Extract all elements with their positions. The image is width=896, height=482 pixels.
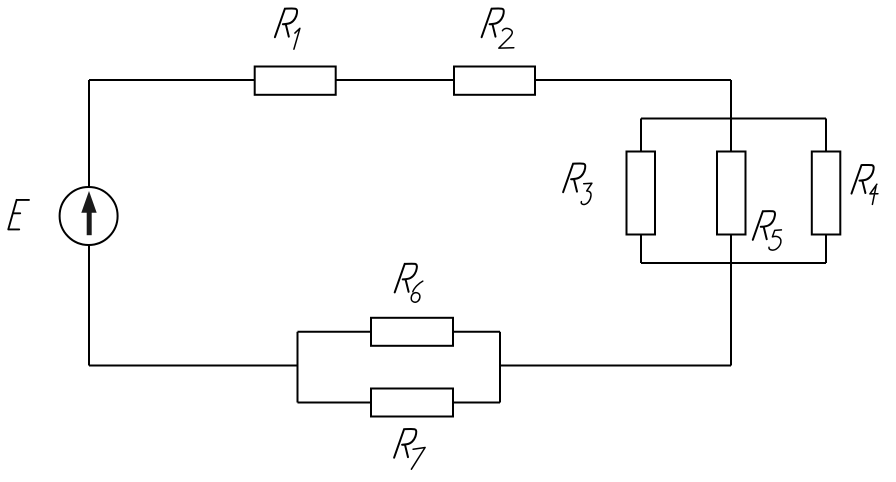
label E xyxy=(8,200,29,230)
wire R4 branch xyxy=(825,119,827,264)
wire R6/R7 right bracket xyxy=(499,332,501,403)
label R1 xyxy=(275,9,300,50)
wire right branch xyxy=(730,80,732,366)
wire parallel-group bottom bus xyxy=(641,262,826,264)
wire R6/R7 left bracket xyxy=(297,332,299,403)
wire bottom left segment xyxy=(89,365,298,367)
source E arrow xyxy=(81,191,96,235)
resistor R5 body xyxy=(717,152,746,235)
resistor R1 body xyxy=(255,67,336,95)
source E circle xyxy=(60,187,118,245)
label R4 xyxy=(852,165,878,204)
wire R7 branch xyxy=(298,402,501,404)
label R3 xyxy=(563,164,592,205)
label R5 xyxy=(753,211,782,250)
resistor R4 body xyxy=(812,152,841,235)
label R7 xyxy=(394,429,425,469)
resistor R2 body xyxy=(454,67,535,95)
wire left branch xyxy=(88,80,90,366)
wire R6 branch xyxy=(298,331,501,333)
wire R3 branch xyxy=(640,119,642,264)
resistor R7 body xyxy=(371,389,453,417)
label R6 xyxy=(395,264,423,302)
resistor R6 body xyxy=(371,318,453,346)
resistor R3 body xyxy=(627,152,656,235)
label R2 xyxy=(482,9,514,49)
wire top from node A to node B xyxy=(89,79,731,81)
wire parallel-group top bus xyxy=(641,118,826,120)
wire bottom right segment xyxy=(500,365,731,367)
